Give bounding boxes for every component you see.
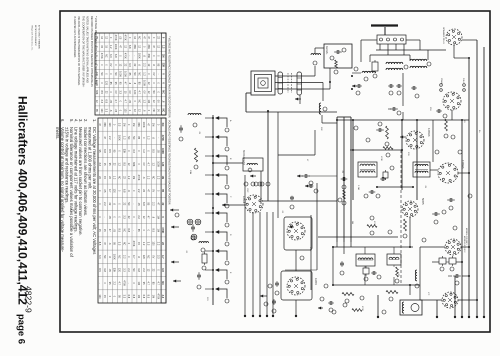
screen feed resistor R15	[396, 267, 399, 277]
rectifier tube V5 35W4	[443, 92, 461, 110]
svg-text:0V: 0V	[128, 91, 131, 94]
svg-text:NC: NC	[147, 255, 150, 259]
svg-text:4.7: 4.7	[147, 162, 150, 166]
svg-text:-: -	[128, 55, 131, 56]
ground return wires to chassis bus	[252, 212, 254, 316]
wire: V7 to B+ bus	[461, 246, 469, 248]
svg-text:120: 120	[108, 123, 111, 128]
svg-text:-: -	[156, 137, 159, 138]
electrolytic filter C7	[390, 108, 393, 110]
wire: audio coupling link	[377, 186, 413, 188]
svg-text:2.2: 2.2	[137, 189, 140, 193]
wire: rail into V8	[420, 299, 442, 301]
svg-text:3.3: 3.3	[109, 54, 112, 58]
aerial resistor R3	[335, 60, 338, 68]
svg-text:100K: 100K	[161, 148, 164, 154]
wire: detector to B+ bus	[458, 172, 469, 174]
svg-text:5.: 5.	[69, 119, 74, 123]
detector diode load resistor R7	[383, 147, 393, 150]
svg-text:6.8: 6.8	[114, 54, 117, 58]
svg-text:470K: 470K	[380, 156, 382, 161]
svg-text:1M: 1M	[147, 100, 150, 103]
svg-text:.05: .05	[156, 149, 159, 153]
converter tube V1 12BE6	[245, 195, 263, 213]
shield partition (dashed)	[400, 150, 402, 285]
svg-text:120: 120	[105, 81, 108, 86]
wire: osc link	[278, 154, 315, 156]
wire: IF secondary down	[401, 120, 403, 190]
audio return arrow	[260, 295, 267, 297]
svg-text:-: -	[98, 137, 101, 138]
power transformer primary coils	[386, 62, 403, 64]
svg-text:.05: .05	[113, 229, 116, 233]
svg-text:470K: 470K	[132, 241, 135, 247]
schematic border frame	[60, 11, 490, 332]
2nd detector tube V3 12AT6	[438, 163, 458, 183]
svg-text:1M: 1M	[137, 268, 140, 271]
wire: aerial coil into box	[314, 48, 316, 54]
svg-text:4.7: 4.7	[156, 281, 159, 285]
wire: riser to aerial coil	[314, 66, 316, 76]
svg-text:3.3: 3.3	[119, 90, 122, 94]
svg-text:120: 120	[100, 108, 103, 113]
wire: detector bus	[352, 120, 354, 200]
svg-text:NOTED. VALUES TAKEN WITH NO SI: NOTED. VALUES TAKEN WITH NO SIGNAL APPLI…	[86, 16, 89, 83]
svg-text:A PHOTOFACT STANDARD: A PHOTOFACT STANDARD	[38, 25, 41, 50]
svg-text:0V: 0V	[142, 91, 145, 94]
switch section capacitor C1	[180, 125, 182, 128]
svg-text:12BE6: 12BE6	[242, 196, 245, 204]
svg-text:1M: 1M	[152, 295, 155, 298]
wire: osc coil drop	[260, 171, 262, 204]
svg-text:3.3: 3.3	[147, 242, 150, 246]
svg-text:3.3: 3.3	[156, 255, 159, 259]
svg-text:3.3: 3.3	[98, 162, 101, 166]
wire: audio input rail	[318, 236, 398, 238]
switch arrows to phono	[171, 226, 179, 228]
svg-text:12K: 12K	[320, 127, 322, 131]
svg-text:33K: 33K	[161, 63, 164, 68]
wire: strip to speaker feed	[406, 39, 420, 41]
boxed resistor R2	[202, 254, 207, 263]
svg-text:2.2: 2.2	[113, 281, 116, 285]
audio tube V6 shield box	[281, 271, 312, 300]
svg-text:470K: 470K	[122, 280, 125, 286]
svg-text:2.2M: 2.2M	[357, 185, 359, 190]
oscillator ground wire	[244, 175, 246, 316]
svg-text:1.2: 1.2	[152, 162, 155, 166]
svg-text:33K: 33K	[122, 149, 125, 154]
coupling capacitor C13	[432, 213, 435, 215]
svg-text:NC: NC	[133, 72, 136, 76]
svg-text:4.7: 4.7	[161, 255, 164, 259]
boxed resistors R12 R13	[439, 258, 446, 264]
svg-text:1.2: 1.2	[127, 176, 130, 180]
svg-text:1M: 1M	[122, 123, 125, 126]
svg-text:12AT6: 12AT6	[314, 278, 317, 286]
wire: speaker return	[419, 247, 421, 285]
svg-text:4.7: 4.7	[108, 189, 111, 193]
svg-text:6.8: 6.8	[142, 202, 145, 206]
svg-text:8.5: 8.5	[152, 149, 155, 153]
wire: AVC bus vertical	[416, 120, 418, 200]
wire: IF plate link	[350, 149, 402, 151]
svg-text:NC: NC	[127, 202, 130, 206]
audio divider resistor R14 (boxed)	[363, 268, 369, 274]
svg-text:100K: 100K	[142, 80, 145, 86]
svg-text:3.3: 3.3	[122, 295, 125, 299]
svg-text:1M: 1M	[137, 295, 140, 298]
svg-text:-: -	[103, 217, 106, 218]
voltage/resistance chart A (record position)	[95, 33, 166, 115]
phono input jacks	[187, 219, 193, 225]
power plug bar	[371, 24, 398, 26]
svg-text:4.7: 4.7	[123, 100, 126, 104]
loop antenna coupling winding, primary	[278, 72, 283, 94]
wire: grid line down to converter tube	[267, 112, 269, 201]
converter bypass capacitor	[291, 196, 293, 198]
band switch wafer contacts	[216, 118, 227, 127]
audio cluster label	[320, 297, 324, 301]
svg-text:100K: 100K	[113, 254, 116, 260]
wire: speaker plug lead	[453, 45, 455, 58]
svg-text:120: 120	[113, 189, 116, 194]
svg-text:3.3: 3.3	[118, 123, 121, 127]
loop antenna coupling winding, secondary	[297, 72, 302, 95]
svg-text:2.2: 2.2	[142, 268, 145, 272]
svg-text:1M: 1M	[351, 221, 353, 224]
svg-text:470K: 470K	[123, 53, 126, 59]
svg-text:12BA6: 12BA6	[461, 160, 465, 169]
svg-text:©Howard W. Sams & Co., Inc.: ©Howard W. Sams & Co., Inc.	[31, 25, 34, 51]
wire: rectifier to B+ bus	[451, 110, 453, 120]
tone capacitor C14	[447, 199, 450, 201]
svg-text:120: 120	[118, 268, 121, 273]
svg-text:RECORD CHANGER POSITION; READI: RECORD CHANGER POSITION; READINGS OTHERW…	[90, 16, 93, 87]
svg-text:NC: NC	[138, 99, 141, 103]
audio grid capacitor C9	[276, 281, 278, 283]
svg-text:100K: 100K	[138, 53, 141, 59]
svg-text:6.8: 6.8	[127, 229, 130, 233]
wire: loop return with arrow	[299, 95, 301, 104]
svg-text:1M: 1M	[103, 268, 106, 271]
osc tracking coil L6	[319, 103, 321, 114]
wire: osc box riser	[310, 215, 312, 290]
4th IF transformer (output can)	[413, 162, 430, 177]
svg-text:-: -	[132, 230, 135, 231]
svg-text:SPEAKER PLUG: SPEAKER PLUG	[442, 27, 445, 44]
AVC capacitor C12	[369, 191, 372, 193]
extra junction labels	[354, 126, 358, 130]
padder capacitor row	[254, 182, 258, 186]
svg-text:0V: 0V	[114, 91, 117, 94]
svg-text:2.2: 2.2	[108, 136, 111, 140]
buffer capacitor C6	[411, 87, 413, 89]
svg-text:NC: NC	[138, 72, 141, 76]
svg-text:12BA6: 12BA6	[427, 128, 431, 137]
wire: resistor row feed	[432, 261, 439, 263]
svg-text:1M: 1M	[132, 123, 135, 126]
svg-text:Volume control at maximum, no: Volume control at maximum, no signal app…	[60, 127, 65, 253]
svg-text:1.2: 1.2	[147, 136, 150, 140]
B+ bus wire 2	[468, 58, 470, 317]
svg-text:BROADCAST: BROADCAST	[242, 150, 245, 165]
oscillator padder resistor R1	[194, 148, 197, 162]
svg-text:.05: .05	[114, 109, 117, 113]
svg-text:NC: NC	[122, 242, 125, 246]
grid capacitor with arrow	[305, 185, 310, 187]
svg-text:8.5: 8.5	[108, 149, 111, 153]
detector pin labels	[451, 135, 455, 139]
svg-text:1M: 1M	[156, 229, 159, 232]
svg-text:1.2: 1.2	[147, 176, 150, 180]
svg-text:1M: 1M	[152, 123, 155, 126]
svg-text:4.7: 4.7	[118, 281, 121, 285]
wire: switch bus to converter	[222, 204, 245, 206]
B+ bus wire 5	[454, 276, 456, 317]
svg-text:2.2: 2.2	[142, 63, 145, 67]
wire: choke lead	[352, 72, 361, 74]
svg-text:.05: .05	[119, 36, 122, 40]
wire: pot lines into audio rails	[336, 242, 338, 247]
osc coil arrow	[250, 175, 256, 177]
svg-text:100K: 100K	[156, 161, 159, 167]
speaker plug socket	[446, 29, 462, 45]
svg-text:8.5: 8.5	[122, 162, 125, 166]
wire: loop secondary top lead	[275, 75, 315, 77]
svg-text:120: 120	[152, 241, 155, 246]
svg-text:NC: NC	[161, 90, 164, 94]
svg-text:.05: .05	[108, 268, 111, 272]
svg-text:.05: .05	[137, 202, 140, 206]
svg-text:2.2: 2.2	[137, 215, 140, 219]
aerial series capacitor C4	[334, 51, 337, 53]
svg-text:35W4: 35W4	[440, 78, 442, 84]
svg-text:OSC: OSC	[246, 188, 248, 193]
ground drop from output stage	[377, 295, 379, 317]
screen resistor R11	[404, 219, 407, 231]
svg-text:470K: 470K	[114, 35, 117, 41]
svg-text:3.3: 3.3	[105, 109, 108, 113]
oscillator shield box	[284, 217, 312, 250]
audio grid label	[268, 284, 272, 288]
svg-text:6.8: 6.8	[142, 295, 145, 299]
svg-text:NC: NC	[152, 109, 155, 113]
volume control assembly vertical wires	[336, 117, 338, 242]
electrolytic C17	[371, 272, 373, 274]
volume control resistor R8	[343, 190, 346, 199]
voltage/resistance chart B (broadcast position)	[98, 118, 166, 303]
rotated portrait text block (tables, notes, footer)	[16, 16, 171, 344]
svg-text:4822-9: 4822-9	[24, 286, 34, 313]
svg-text:1.: 1.	[92, 119, 97, 123]
svg-text:NC: NC	[100, 72, 103, 76]
B+ bus wire 3	[476, 40, 478, 317]
loop antenna frame	[251, 71, 275, 95]
svg-text:1.2: 1.2	[161, 45, 164, 49]
svg-text:1.2: 1.2	[156, 176, 159, 180]
wire: osc box drop	[295, 250, 297, 271]
svg-text:120: 120	[133, 90, 136, 95]
svg-text:.05: .05	[108, 215, 111, 219]
plate load resistor 470K	[367, 225, 377, 228]
svg-text:6.: 6.	[60, 119, 65, 123]
svg-text:6.8K: 6.8K	[309, 247, 311, 252]
svg-text:1.2: 1.2	[118, 162, 121, 166]
aerial terminal box	[324, 44, 352, 68]
svg-text:MODEL 410 ONLY: MODEL 410 ONLY	[465, 228, 467, 245]
AVC dropping resistor R16	[445, 119, 448, 131]
svg-text:AERIAL: AERIAL	[325, 46, 328, 55]
osc trimmer row	[244, 182, 248, 186]
svg-text:4.7: 4.7	[132, 255, 135, 259]
coupling capacitor C3	[198, 272, 200, 275]
wire: output transformer feed	[409, 285, 411, 295]
svg-text:NC: NC	[127, 136, 130, 140]
svg-text:NC: NC	[152, 90, 155, 94]
svg-text:VOLTAGE AND RESISTANCE READING: VOLTAGE AND RESISTANCE READINGS TAKEN IN…	[168, 120, 171, 205]
svg-text:33K: 33K	[147, 44, 150, 49]
svg-text:6.8: 6.8	[161, 268, 164, 272]
filter choke L5	[362, 71, 376, 73]
svg-text:3.3: 3.3	[122, 268, 125, 272]
svg-text:1.2: 1.2	[142, 149, 145, 153]
interstage transformer L8	[387, 254, 401, 265]
tube V8 socket (pilot)	[442, 292, 458, 308]
svg-text:1M: 1M	[161, 176, 164, 179]
IF can to detector link	[430, 169, 438, 171]
rectifier cathode capacitors	[388, 85, 390, 87]
svg-text:100K: 100K	[118, 135, 121, 141]
svg-text:6.8: 6.8	[128, 45, 131, 49]
svg-text:100K: 100K	[119, 71, 122, 77]
svg-text:470K: 470K	[161, 227, 164, 233]
svg-text:NC: NC	[118, 255, 121, 259]
svg-text:33K: 33K	[113, 268, 116, 273]
svg-text:470K: 470K	[137, 175, 140, 181]
svg-text:NC: NC	[132, 268, 135, 272]
wires: power strip to filter row	[379, 44, 381, 50]
wire: cap to volume line	[309, 175, 337, 177]
IF bypass capacitor C8	[376, 129, 379, 131]
svg-text:8.5: 8.5	[118, 229, 121, 233]
svg-text:MODELS 410-412: MODELS 410-412	[463, 236, 465, 253]
B+ bus wire 1	[461, 120, 463, 317]
svg-text:6.8: 6.8	[122, 189, 125, 193]
svg-text:0V: 0V	[152, 72, 155, 75]
line bypass capacitor C15	[453, 275, 456, 277]
svg-text:33K: 33K	[132, 162, 135, 167]
svg-text:NC: NC	[152, 176, 155, 180]
wire: aerial box drop	[329, 68, 331, 89]
wire: loop to converter grid	[275, 88, 330, 90]
audio tube V6 12AT6 socket	[287, 277, 305, 295]
svg-text:33K: 33K	[137, 122, 140, 127]
svg-text:6.8: 6.8	[105, 100, 108, 104]
loop antenna core (dashed)	[287, 73, 289, 93]
oscillator section of converter	[287, 222, 305, 240]
svg-text:50B5: 50B5	[421, 198, 425, 205]
svg-text:V.C.: V.C.	[427, 292, 429, 296]
svg-text:IS GRATEFULLY ACKNOWLEDGED.: IS GRATEFULLY ACKNOWLEDGED.	[73, 16, 76, 58]
wire: converter plate to IF	[263, 200, 337, 202]
antenna coil L1	[188, 113, 201, 115]
svg-text:2.2: 2.2	[122, 255, 125, 259]
svg-text:4.7: 4.7	[138, 90, 141, 94]
svg-text:3.3: 3.3	[128, 63, 131, 67]
svg-text:2.2: 2.2	[103, 202, 106, 206]
svg-text:0V: 0V	[152, 189, 155, 192]
wire: osc coil to switch	[213, 162, 243, 164]
wire: osc link lower	[285, 269, 317, 271]
svg-text:NC: NC	[105, 54, 108, 58]
svg-text:.05: .05	[109, 100, 112, 104]
svg-text:3.3: 3.3	[100, 100, 103, 104]
svg-text:NC: NC	[161, 281, 164, 285]
svg-text:8.5: 8.5	[98, 242, 101, 246]
svg-text:0V: 0V	[157, 100, 160, 103]
svg-text:1.2: 1.2	[109, 45, 112, 49]
svg-text:470K: 470K	[156, 293, 159, 299]
wire: bypass cap to bus	[462, 275, 469, 277]
wire: avc riser	[316, 183, 318, 270]
rectifier heater pins	[440, 84, 443, 87]
wire: V8 to B+ bus	[458, 299, 477, 301]
svg-text:10M: 10M	[189, 170, 191, 174]
svg-text:NC: NC	[138, 36, 141, 40]
wire: power rail upper	[376, 49, 428, 51]
power plug stem	[384, 27, 386, 35]
svg-text:1.2: 1.2	[113, 176, 116, 180]
wire: loop frame return lead	[246, 92, 251, 94]
svg-text:33K: 33K	[103, 122, 106, 127]
svg-text:120: 120	[123, 108, 126, 113]
band switch rotor bus	[212, 115, 214, 305]
svg-text:6.8: 6.8	[127, 295, 130, 299]
svg-text:3.3: 3.3	[122, 215, 125, 219]
wire: rail into V7	[420, 246, 445, 248]
svg-text:1M: 1M	[137, 281, 140, 284]
svg-text:0V: 0V	[109, 63, 112, 66]
oscillator coil L3	[243, 158, 263, 171]
aerial loading coil L4	[311, 54, 321, 55]
switch lead arrow to loop	[170, 209, 179, 211]
audio series resistor 470K	[352, 309, 362, 312]
svg-text:33K: 33K	[133, 44, 136, 49]
svg-text:1M: 1M	[156, 215, 159, 218]
svg-text:NC: NC	[114, 72, 117, 76]
svg-text:4.7: 4.7	[147, 281, 150, 285]
svg-text:2.2: 2.2	[156, 242, 159, 246]
svg-text:3.3: 3.3	[132, 149, 135, 153]
svg-text:NC: NC	[118, 176, 121, 180]
wire: output stage drop	[409, 217, 411, 247]
svg-text:120: 120	[98, 294, 101, 299]
wave trap coil L2	[199, 242, 209, 243]
svg-text:page 6: page 6	[16, 314, 27, 344]
svg-text:1M: 1M	[132, 176, 135, 179]
svg-text:0V: 0V	[142, 163, 145, 166]
svg-text:1M: 1M	[161, 54, 164, 57]
svg-text:2.2: 2.2	[127, 268, 130, 272]
tube V7 socket (phono motor plug)	[445, 239, 461, 255]
svg-text:NC: NC	[161, 123, 164, 127]
output tube V4 50B5	[402, 201, 418, 217]
audio coupling capacitor C10	[273, 299, 275, 301]
wire: top horizontal run to volume control	[246, 111, 337, 113]
svg-text:* VOLTAGE AND RESISTANCE READI: * VOLTAGE AND RESISTANCE READINGS TAKEN …	[168, 36, 171, 118]
svg-text:THE COOPERATION OF THE MANUFAC: THE COOPERATION OF THE MANUFACTURER IN F…	[81, 16, 84, 87]
